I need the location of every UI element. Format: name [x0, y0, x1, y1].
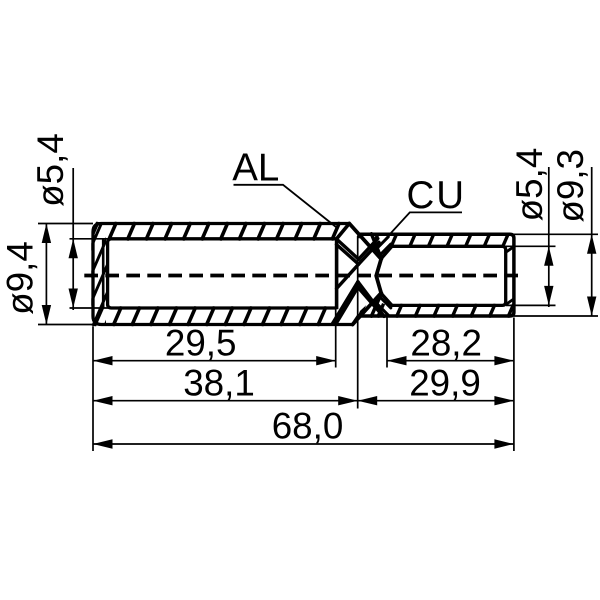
- dimension line diameter 5,4 right: [548, 167, 550, 307]
- CU end wall hatch marks: [506, 247, 514, 253]
- weld seam lower parallel edge: [371, 293, 381, 316]
- dimension line 29,9: [358, 400, 514, 402]
- extension line CU funnel vertical: [386, 318, 388, 368]
- centerline (dashed axis): [80, 274, 519, 278]
- svg-text:ø9,4: ø9,4: [0, 241, 41, 315]
- AL bore entry edge line: [102, 239, 105, 308]
- dimension line diameter 9,4: [45, 224, 47, 325]
- svg-text:AL: AL: [232, 146, 279, 189]
- CU top wall hatching: [353, 233, 527, 248]
- weld diagonal to bore end: [337, 264, 359, 288]
- weld band upper hatch mark 1: [375, 237, 389, 251]
- weld apex bar: [376, 259, 381, 293]
- extension line CU outer top: [514, 233, 598, 235]
- svg-text:29,9: 29,9: [409, 363, 481, 404]
- CU bore funnel lower edge: [381, 293, 392, 305]
- CU label leader line: [377, 212, 462, 248]
- AL top wall hatching: [90, 222, 359, 241]
- AL label leader line: [234, 185, 337, 227]
- lower chevron 2 left leg: [337, 287, 358, 323]
- AL to CU outer step (bottom): [353, 316, 359, 325]
- extension line CU bore top: [506, 245, 556, 247]
- svg-text:68,0: 68,0: [272, 406, 344, 447]
- weld seam lower long diagonal: [353, 293, 381, 324]
- lower chevron 1 left leg: [332, 282, 358, 324]
- lower chevron 2 right leg: [358, 287, 380, 313]
- dimension line diameter 5,4 left: [72, 168, 74, 310]
- dimension line 38,1: [93, 400, 358, 402]
- upper chevron 1 left leg: [337, 239, 359, 259]
- upper chevron 2 right leg: [359, 242, 379, 264]
- extension line right face vertical: [513, 318, 515, 452]
- AL end face top edge: [337, 224, 350, 239]
- upper chevron 2 left leg: [337, 245, 359, 265]
- svg-text:ø5,4: ø5,4: [30, 133, 71, 207]
- extension line AL bore bottom: [70, 307, 109, 309]
- weld band upper hatch mark 2: [381, 244, 391, 254]
- extension line left face vertical: [92, 326, 94, 451]
- svg-text:38,1: 38,1: [183, 363, 255, 404]
- AL sleeve bore contour: [108, 239, 337, 308]
- svg-text:28,2: 28,2: [410, 323, 482, 364]
- extension line AL outer top: [38, 223, 93, 225]
- CU sleeve outer contour: [357, 234, 514, 316]
- AL bottom wall hatching: [94, 306, 363, 326]
- svg-text:ø5,4: ø5,4: [509, 148, 550, 222]
- extension line weld center vertical: [357, 236, 359, 409]
- dimension line 68,0: [93, 443, 514, 445]
- extension line AL bore depth vertical: [335, 310, 337, 368]
- extension line AL outer bottom: [38, 324, 93, 326]
- dimension line diameter 9,3: [591, 167, 593, 316]
- weld seam upper parallel edge: [371, 234, 381, 259]
- AL left wall hatching: [21, 222, 186, 326]
- extension line CU bore bottom: [506, 304, 556, 306]
- extension line CU outer bottom: [514, 315, 598, 317]
- weld seam upper long diagonal: [349, 224, 381, 259]
- CU bottom wall hatching: [359, 304, 533, 318]
- CU bore funnel upper edge: [381, 246, 392, 258]
- AL bore end face (weld barrier): [335, 238, 339, 310]
- upper chevron 1 right leg: [359, 239, 378, 260]
- svg-text:CU: CU: [406, 174, 466, 217]
- weld band lower hatch mark 1: [375, 302, 389, 316]
- svg-text:ø9,3: ø9,3: [550, 149, 591, 223]
- extension line AL bore top: [70, 238, 109, 240]
- dimension line 28,2: [387, 360, 514, 362]
- dimension line 29,5: [93, 360, 336, 362]
- svg-text:29,5: 29,5: [165, 323, 237, 364]
- weld band lower hatch mark 2: [381, 298, 391, 308]
- AL sleeve outer contour: [93, 224, 353, 325]
- lower chevron 1 right leg: [358, 282, 384, 317]
- CU sleeve bore contour: [392, 246, 506, 305]
